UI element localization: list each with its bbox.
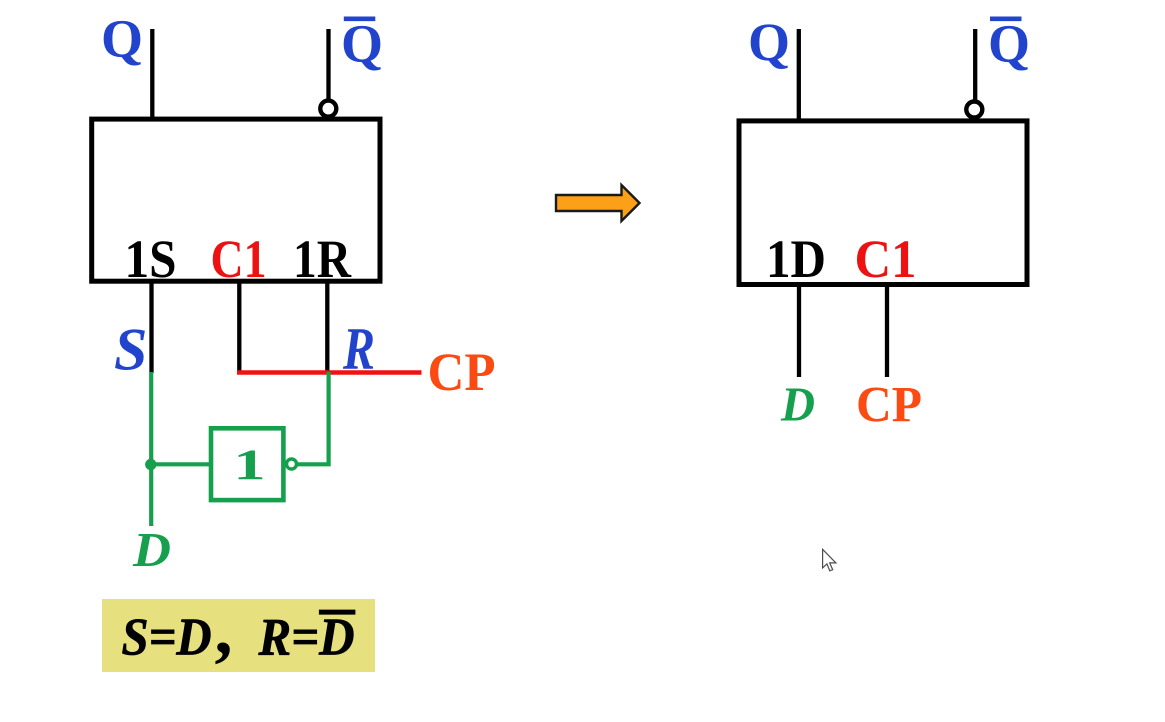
flipflop box U2 (D flip-flop) xyxy=(739,121,1027,285)
svg-text:S: S xyxy=(114,317,147,383)
wire R stub black xyxy=(325,280,329,371)
svg-text:1: 1 xyxy=(233,441,265,489)
inversion bubble on Qbar right xyxy=(966,102,982,118)
svg-text:,: , xyxy=(215,589,233,669)
label 1 inverter xyxy=(233,441,265,489)
label Q left xyxy=(101,9,143,69)
label S xyxy=(114,317,147,383)
svg-text:R=D: R=D xyxy=(258,609,355,667)
label CP left xyxy=(428,342,496,402)
formula highlight box xyxy=(102,599,375,672)
wire D to inverter input xyxy=(151,462,210,466)
svg-text:D: D xyxy=(780,376,815,431)
wire inverter output to R xyxy=(297,372,329,464)
mouse cursor xyxy=(823,549,836,571)
inverter output bubble xyxy=(287,459,297,469)
svg-text:1R: 1R xyxy=(293,229,352,289)
wire Qbar output left xyxy=(326,29,330,99)
wire D vertical green xyxy=(149,372,153,526)
latch box U1 (SR latch) xyxy=(92,119,380,281)
svg-text:Q: Q xyxy=(748,12,790,72)
wire S stub black xyxy=(149,280,153,373)
svg-text:Q: Q xyxy=(341,14,383,74)
wire Q output left xyxy=(150,29,154,119)
wire Qbar output right xyxy=(973,29,977,100)
svg-text:C1: C1 xyxy=(855,229,917,289)
wire Q output right xyxy=(797,29,801,121)
svg-text:S=D: S=D xyxy=(122,608,212,666)
pin label 1D xyxy=(766,229,826,289)
pin label C1 left xyxy=(211,229,267,289)
pin label 1S xyxy=(125,229,177,289)
formula S=D, R=Dbar xyxy=(122,589,356,669)
svg-text:CP: CP xyxy=(428,342,496,402)
label Qbar left xyxy=(341,14,383,74)
junction dot D node xyxy=(145,459,156,470)
inversion bubble on Qbar left xyxy=(320,101,336,117)
label R xyxy=(342,316,375,382)
pin label C1 right xyxy=(855,229,917,289)
wire CP red xyxy=(237,370,422,375)
label D right xyxy=(780,376,815,431)
svg-text:Q: Q xyxy=(101,9,143,69)
inverter gate box xyxy=(211,428,283,500)
label D left xyxy=(132,522,171,577)
label CP right xyxy=(856,378,922,434)
wire CP input right xyxy=(885,283,889,377)
wire D input right xyxy=(797,283,801,377)
svg-text:1D: 1D xyxy=(766,229,826,289)
svg-text:Q: Q xyxy=(988,14,1030,74)
pin label 1R xyxy=(293,229,352,289)
wire C1 stub black xyxy=(237,280,241,371)
arrow symbol xyxy=(556,185,640,221)
label Qbar right xyxy=(988,14,1030,74)
label Q right xyxy=(748,12,790,72)
svg-text:D: D xyxy=(132,522,171,577)
svg-text:CP: CP xyxy=(856,378,922,434)
